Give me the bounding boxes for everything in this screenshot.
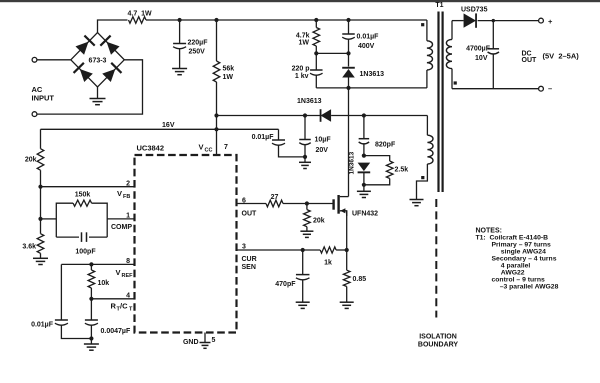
svg-text:250V: 250V <box>189 49 206 56</box>
svg-text:1: 1 <box>126 213 130 220</box>
svg-text:REF: REF <box>122 273 134 279</box>
capacitor C 4700µF 10V <box>492 21 494 49</box>
svg-text:20V: 20V <box>316 147 329 154</box>
svg-text:T1: T1 <box>435 2 443 9</box>
node source/1k junction <box>345 248 349 252</box>
svg-text:GND: GND <box>183 339 199 346</box>
capacitor C 470pF <box>302 250 304 275</box>
node timing ground junction <box>89 336 93 340</box>
wire AC bottom to bridge right <box>37 60 142 114</box>
svg-text:AWG22: AWG22 <box>501 270 525 277</box>
node junction snubber cap <box>346 18 350 22</box>
svg-text:V: V <box>117 189 122 198</box>
svg-text:16V: 16V <box>162 122 175 129</box>
ground (timing network) <box>90 339 92 345</box>
wire Vcc line left <box>217 115 321 117</box>
svg-text:3: 3 <box>242 244 246 251</box>
svg-text:27: 27 <box>271 194 279 201</box>
capacitor C 0.0047µF (timing) <box>90 299 92 320</box>
resistor R 4.7 1W <box>129 17 147 24</box>
svg-text:T: T <box>129 307 133 313</box>
svg-text:ISOLATION: ISOLATION <box>419 334 457 341</box>
svg-text:–: – <box>548 84 552 93</box>
svg-text:10V: 10V <box>475 55 488 62</box>
svg-text:1N3613: 1N3613 <box>349 151 356 174</box>
svg-text:5: 5 <box>212 337 216 344</box>
ground (470pF) <box>296 301 310 303</box>
transformer T1 core <box>437 12 439 193</box>
resistor R 10k <box>90 264 92 270</box>
ground (bridge) <box>97 87 99 99</box>
svg-text:1 kv: 1 kv <box>295 73 309 80</box>
svg-text:0.0047µF: 0.0047µF <box>101 328 131 335</box>
feedback network 150k/100pF <box>41 218 57 220</box>
svg-text:1N3613: 1N3613 <box>360 71 385 78</box>
wire 16V line <box>41 128 279 130</box>
svg-text:4 parallel: 4 parallel <box>501 263 531 270</box>
svg-text:COMP: COMP <box>111 224 132 231</box>
svg-text:UC3842: UC3842 <box>137 144 165 153</box>
pin 5 GND <box>204 333 206 343</box>
node Vcc pin junction <box>214 127 218 131</box>
svg-text:V: V <box>116 268 121 277</box>
resistor R 3.6k <box>40 219 42 234</box>
svg-text:470pF: 470pF <box>275 281 296 288</box>
resistor R 0.85 (current sense) <box>343 270 350 286</box>
svg-text:Primary – 97 turns: Primary – 97 turns <box>492 242 552 249</box>
svg-text:/C: /C <box>120 302 128 311</box>
svg-text:Secondary – 4 turns: Secondary – 4 turns <box>492 256 557 263</box>
svg-text:100pF: 100pF <box>75 248 96 255</box>
AC input terminal (top) <box>32 57 37 62</box>
svg-text:673-3: 673-3 <box>89 58 107 65</box>
wire Vcc line right (to control winding) <box>331 115 427 117</box>
node 470pF junction <box>301 248 305 252</box>
AC input terminal (bottom) <box>32 112 37 117</box>
wire diode to + terminal <box>478 20 539 22</box>
svg-text:2: 2 <box>126 181 130 188</box>
wire secondary bottom <box>452 88 538 90</box>
node pin2 junction <box>38 185 42 189</box>
resistor R 2.5k <box>364 156 390 161</box>
resistor R 27 <box>266 200 283 207</box>
T1 secondary winding <box>451 21 453 40</box>
node 10k top junction <box>89 262 93 266</box>
node snubber connector right <box>346 51 350 55</box>
wire drain line <box>348 88 350 197</box>
svg-text:single AWG24: single AWG24 <box>501 249 546 256</box>
transistor Q1 UFN432 <box>332 199 334 209</box>
svg-text:UFN432: UFN432 <box>352 211 378 218</box>
pin 3 CUR SEN <box>237 249 303 251</box>
svg-text:1N3613: 1N3613 <box>297 98 322 105</box>
capacitor C 220p 1kv <box>315 53 317 70</box>
svg-text:56k: 56k <box>223 66 235 73</box>
node pin4 junction <box>89 297 93 301</box>
node snubber connector left <box>314 51 318 55</box>
svg-text:10µF: 10µF <box>315 137 332 144</box>
svg-text:BOUNDARY: BOUNDARY <box>418 342 459 349</box>
pin 4 RT/CT <box>91 298 134 300</box>
capacitor C 0.01µF (ramp) <box>60 264 62 320</box>
svg-text:4.7k: 4.7k <box>296 33 310 40</box>
pin 8 VREF <box>61 263 134 265</box>
wire HV rail <box>149 19 427 21</box>
capacitor C 220µF 250V <box>179 20 181 44</box>
T1 primary winding <box>426 20 428 41</box>
svg-text:4.7 1W: 4.7 1W <box>128 11 153 18</box>
svg-text:0.01µF: 0.01µF <box>357 33 380 40</box>
node Vcc filter ground junction <box>303 155 307 159</box>
svg-text:control – 9 turns: control – 9 turns <box>492 277 545 284</box>
wire gate <box>283 203 333 205</box>
resistor R 1k <box>320 247 336 253</box>
svg-text:7: 7 <box>224 144 228 151</box>
capacitor C 820pF <box>363 116 365 139</box>
wire snubber connector <box>316 52 348 54</box>
pin 6 OUT <box>237 203 267 205</box>
node zener top junction <box>362 154 366 158</box>
svg-text:220 p: 220 p <box>292 65 310 72</box>
wire pin3 to 1k <box>303 249 321 251</box>
node gate junction <box>305 201 309 205</box>
svg-text:1W: 1W <box>299 40 310 47</box>
node junction 220µF <box>178 18 182 22</box>
diode D 1N3613 (Vcc rectifier) <box>321 109 332 122</box>
resistor R 20k (feedback divider) <box>40 129 42 148</box>
ground (3.6k) <box>33 257 48 259</box>
diode D 1N3613 (clamp) <box>348 53 350 66</box>
svg-text:NOTES:: NOTES: <box>476 228 502 235</box>
node 820pF tap <box>362 113 366 117</box>
svg-text:(5V 2–5A): (5V 2–5A) <box>543 52 580 61</box>
ground (0.85) <box>340 301 354 303</box>
svg-text:4: 4 <box>126 293 130 300</box>
svg-text:4700µF: 4700µF <box>466 46 491 53</box>
wire secondary top <box>452 20 464 22</box>
node junction 4.7k <box>314 18 318 22</box>
svg-text:CUR: CUR <box>242 256 257 263</box>
node junction output cap <box>492 19 495 22</box>
node comp junction <box>38 217 42 221</box>
resistor R 4.7k 1W (snubber) <box>315 20 317 28</box>
resistor R 56k 1W <box>216 20 218 61</box>
wire AC top to bridge left <box>37 59 71 61</box>
svg-text:INPUT: INPUT <box>32 94 55 103</box>
ground (gate resistor) <box>300 230 313 232</box>
svg-text:0.85: 0.85 <box>353 276 367 283</box>
resistor R 20k (gate) <box>306 204 308 210</box>
svg-text:6: 6 <box>242 198 246 205</box>
svg-text:V: V <box>199 143 204 152</box>
svg-text:8: 8 <box>126 258 130 265</box>
pin 1 COMP <box>107 218 134 220</box>
capacitor C 0.01µF (Vcc bypass) <box>278 129 280 140</box>
svg-text:0.01µF: 0.01µF <box>252 134 275 141</box>
node zener bottom junction <box>362 183 366 187</box>
svg-text:20k: 20k <box>313 218 325 225</box>
bridge rectifier 673-3 <box>71 33 125 88</box>
ground (control winding) <box>410 199 424 201</box>
svg-text:400V: 400V <box>358 43 375 50</box>
svg-text:1W: 1W <box>223 74 234 81</box>
node Vcc/56k junction <box>214 113 218 117</box>
svg-text:SEN: SEN <box>242 264 256 271</box>
wire snubber bottom rail <box>316 87 427 89</box>
ground (220µF) <box>172 68 187 70</box>
svg-text:+: + <box>548 17 553 26</box>
svg-text:CC: CC <box>205 148 213 154</box>
wire source line <box>346 211 348 270</box>
svg-text:OUT: OUT <box>242 211 258 218</box>
wire Vcc pin lead <box>216 116 218 156</box>
wire bridge top to rail <box>98 20 128 33</box>
node 10µF tap <box>303 113 307 117</box>
wire left rail <box>40 187 42 219</box>
DC output terminal &#8722; <box>539 86 544 91</box>
svg-text:10k: 10k <box>98 280 110 287</box>
pin 2 VFB <box>41 186 135 188</box>
node junction 56k <box>214 18 218 22</box>
svg-text:2.5k: 2.5k <box>395 167 409 174</box>
phasing dot (secondary) <box>454 81 457 84</box>
capacitor C 10µF 20V <box>304 116 306 140</box>
zener diode 1N3613 <box>358 163 371 172</box>
diode USD735 <box>464 13 477 27</box>
svg-text:20k: 20k <box>25 157 37 164</box>
svg-text:–3 parallel AWG28: –3 parallel AWG28 <box>500 284 559 291</box>
DC output terminal + <box>539 18 544 23</box>
T1 control winding <box>426 116 428 136</box>
ground (zener network) <box>363 185 365 192</box>
ground (Vcc filter) <box>304 157 306 162</box>
phasing dot (control) <box>421 176 424 179</box>
op-amp U1 UC3842 box <box>135 155 237 333</box>
svg-text:1k: 1k <box>324 260 332 267</box>
svg-text:0.01µF: 0.01µF <box>31 322 54 329</box>
capacitor C 0.01µF 400V (snubber) <box>348 20 350 34</box>
svg-text:FB: FB <box>123 194 130 200</box>
svg-text:820pF: 820pF <box>375 141 396 148</box>
svg-text:T1: Coilcraft E-4140-B: T1: Coilcraft E-4140-B <box>476 235 549 242</box>
svg-text:3.6k: 3.6k <box>22 244 36 251</box>
svg-text:USD735: USD735 <box>461 7 488 14</box>
isolation boundary <box>435 199 437 318</box>
notes text block <box>476 228 559 291</box>
svg-text:OUT: OUT <box>522 57 538 64</box>
svg-text:150k: 150k <box>75 192 91 199</box>
phasing dot (primary) <box>421 23 424 26</box>
node drain rail junction <box>346 86 350 90</box>
svg-text:220µF: 220µF <box>188 40 209 47</box>
